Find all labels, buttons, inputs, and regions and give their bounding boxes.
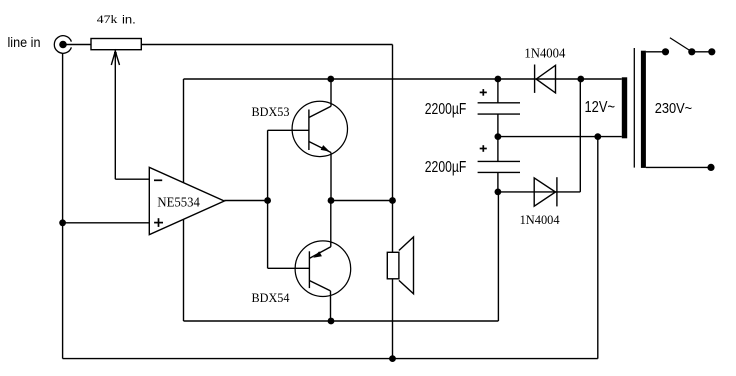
node: Q1 collector junction dot on +V rail	[327, 76, 334, 83]
transistor Q2 base bar	[308, 251, 310, 288]
transistor Q2 BDX54 circle	[295, 241, 351, 297]
wire +V top rail	[184, 78, 622, 80]
wire speaker node down to speaker	[392, 201, 394, 253]
transistor Q1 emitter slant	[309, 142, 331, 153]
diode D1 1N4004 cathode bar	[534, 65, 536, 93]
transistor Q1 collector slant	[309, 106, 331, 117]
wire C2 top lead	[497, 137, 499, 162]
node: C1 top junction dot on +V rail	[495, 76, 502, 83]
connector J1 line-in RCA jack outer ring	[54, 36, 71, 54]
wire primary bottom lead	[646, 166, 711, 168]
wire base drive vertical	[267, 130, 269, 268]
wire ground rail up to transformer center lead	[597, 137, 599, 359]
transformer T1 primary winding bar 230V	[641, 51, 646, 168]
wire wiper to op-amp inverting input	[115, 178, 149, 180]
wire C2 bottom to D2 anode	[498, 191, 580, 193]
wire wiper down	[114, 51, 116, 180]
node: base drive junction dot	[264, 197, 271, 204]
wire Q1 emitter down to output node	[330, 153, 332, 201]
svg-text:1N4004: 1N4004	[524, 46, 565, 61]
diode D2 triangle	[534, 178, 555, 206]
op-amp U1 inverting input minus symbol	[154, 179, 162, 181]
transistor Q2 collector slant	[310, 281, 331, 291]
potentiometer R1 wiper arrowhead	[111, 51, 119, 65]
wire D2 cathode up to transformer top node	[579, 79, 581, 192]
node: switch terminal dot left	[662, 48, 669, 55]
transistor Q2 emitter arrowhead	[313, 251, 322, 258]
wire to BDX53 base	[268, 129, 309, 131]
svg-text:BDX54: BDX54	[252, 291, 291, 305]
potentiometer R1 47k body	[91, 39, 141, 50]
connector J1 center pin dot	[59, 41, 67, 49]
wire feedback vertical down to output node	[392, 45, 394, 201]
node: D1/transformer junction dot	[577, 76, 584, 83]
node: mains terminal dot top	[708, 48, 715, 55]
wire emitters to speaker node	[331, 200, 393, 202]
node: center tap junction dot	[495, 133, 502, 140]
node: mains terminal dot bottom	[707, 164, 714, 171]
transformer T1 core line	[633, 48, 635, 168]
wire J1 pin to potentiometer	[64, 44, 91, 46]
svg-text:2200µF: 2200µF	[425, 101, 467, 118]
wire switch to mains terminal	[692, 51, 712, 53]
wire ground to op-amp non-inverting input	[63, 222, 150, 224]
op-amp U1 non-inverting input plus symbol	[154, 222, 163, 224]
wire J1 shield down to ground rail	[62, 53, 64, 358]
wire primary top lead to switch	[646, 51, 666, 53]
speaker LS1 cone	[399, 237, 414, 294]
svg-text:BDX53: BDX53	[252, 105, 290, 119]
wire +V rail to op-amp V+ pin	[183, 79, 185, 183]
diode D2 cathode bar	[556, 177, 558, 206]
op-amp U1 NE5534 triangle	[149, 167, 224, 234]
svg-text:in.: in.	[122, 12, 136, 26]
wire center tap to transformer secondary bottom	[498, 136, 622, 138]
svg-text:line in: line in	[8, 35, 41, 50]
wire -V rail to op-amp V- pin	[183, 219, 185, 321]
capacitor C2 plates	[478, 160, 520, 162]
svg-text:47k: 47k	[97, 14, 118, 26]
node: C2 bottom junction dot	[495, 189, 502, 196]
speaker LS1 magnet box	[387, 252, 399, 278]
wire -V bottom rail	[184, 320, 499, 322]
node: switch terminal dot right	[688, 48, 695, 55]
wire Q2 collector down to -V rail	[330, 291, 332, 321]
node: speaker ground junction dot	[389, 355, 396, 362]
wire C1 bottom lead to center tap	[497, 114, 499, 137]
wire Q2 emitter up to output node	[330, 201, 332, 247]
wire -V rail up to C2 negative	[497, 192, 499, 321]
node: ground tee junction dot on center lead	[594, 133, 601, 140]
diode D1 triangle	[536, 65, 555, 93]
wire C2 bottom lead	[497, 172, 499, 192]
transistor Q2 emitter slant	[310, 247, 331, 258]
svg-text:NE5534: NE5534	[157, 196, 200, 211]
svg-text:1N4004: 1N4004	[520, 212, 560, 227]
wire ground rail	[63, 358, 598, 360]
capacitor C1 plates	[478, 102, 520, 104]
capacitor C1 plus sign	[480, 91, 487, 93]
wire pot right terminal to feedback node (top)	[141, 44, 392, 46]
svg-text:2200µF: 2200µF	[425, 159, 467, 176]
svg-text:230V~: 230V~	[655, 101, 693, 117]
node: junction dot ground to non-inverting input	[59, 219, 66, 226]
wire C1 top lead	[497, 79, 499, 103]
transistor Q1 base bar	[308, 110, 310, 151]
node: emitters junction dot	[328, 197, 335, 204]
wire speaker down to ground rail	[392, 279, 394, 359]
wire Q1 collector to +V rail	[330, 79, 332, 106]
transistor Q1 BDX53 circle	[292, 101, 347, 156]
transistor Q1 emitter arrowhead	[321, 145, 330, 152]
svg-text:12V~: 12V~	[585, 99, 616, 116]
node: Q2 collector junction dot on -V rail	[328, 318, 335, 325]
capacitor C2 plus sign	[480, 148, 487, 150]
transformer T1 secondary winding bar 12V	[622, 77, 627, 138]
node: speaker/feedback junction dot	[389, 197, 396, 204]
switch S1 arm	[670, 38, 692, 52]
wire to BDX54 base	[268, 267, 310, 269]
wire op-amp output to base node	[224, 200, 267, 202]
